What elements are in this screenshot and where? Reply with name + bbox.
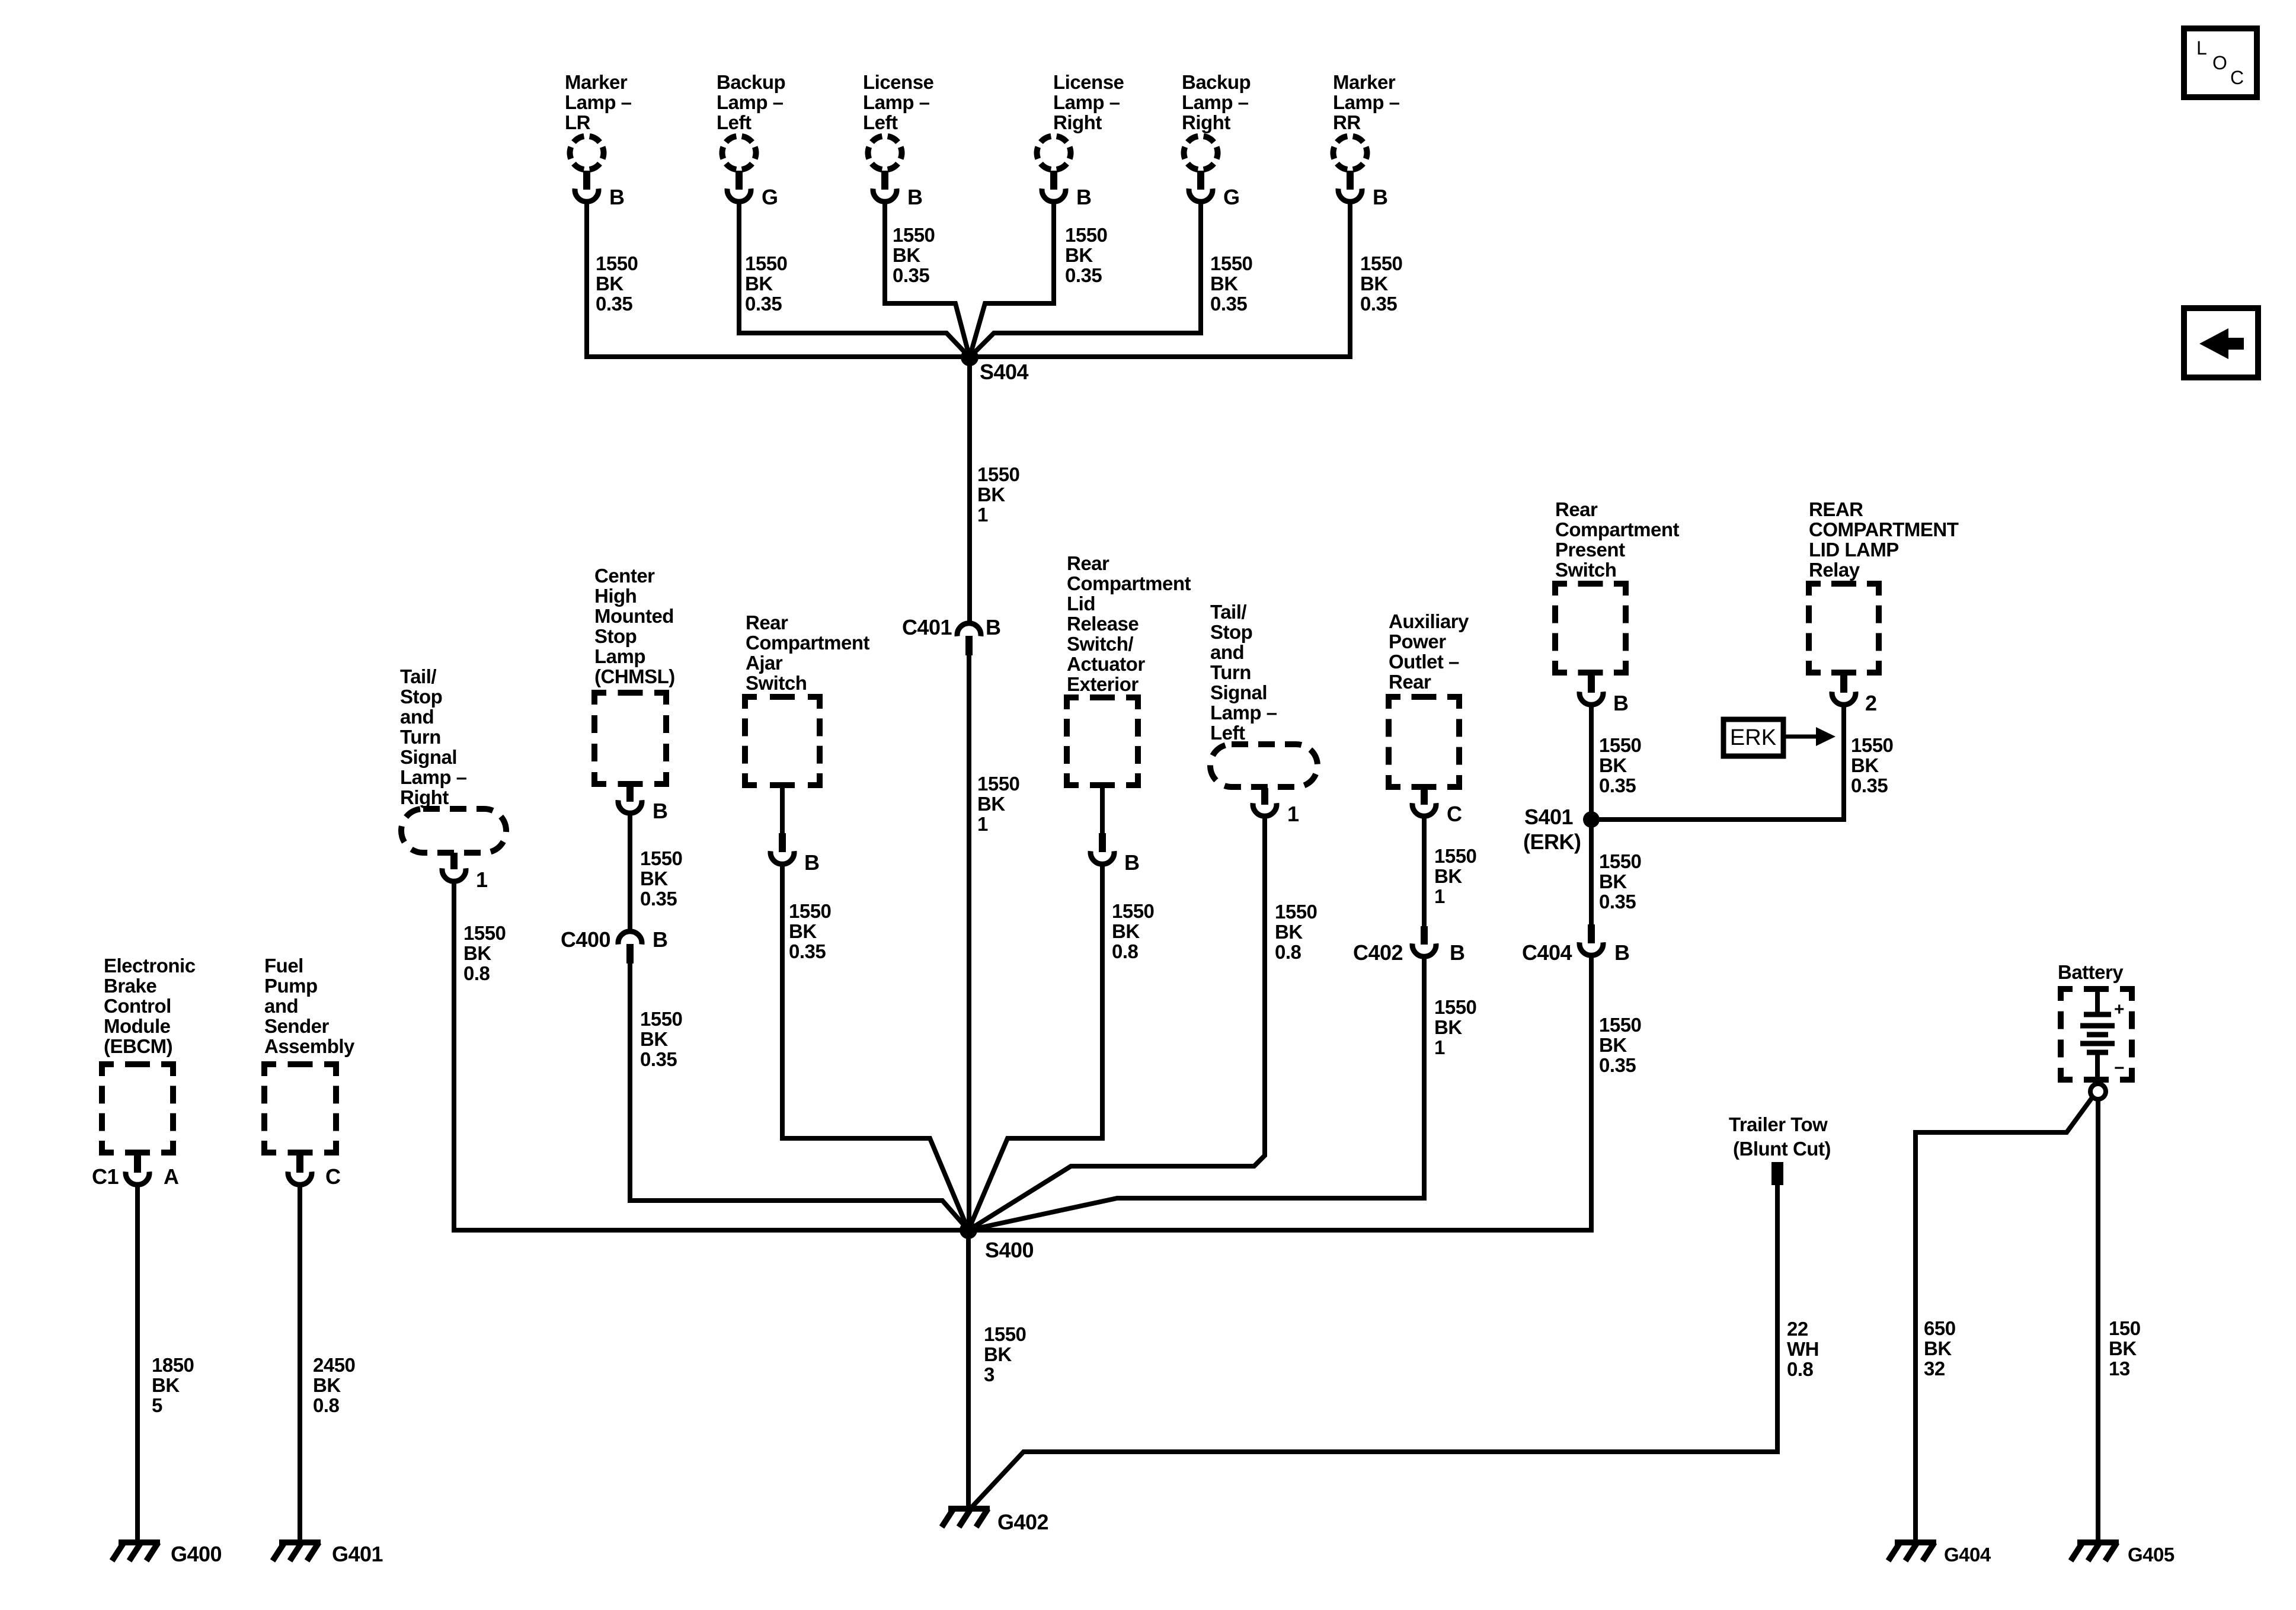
wire S400 to G402 <box>966 1230 971 1509</box>
svg-text:0.35: 0.35 <box>745 293 782 315</box>
svg-text:BK: BK <box>1851 754 1879 776</box>
wire Battery to G404 (650 BK 32) <box>1916 1097 2093 1542</box>
wire label 1550 BK 0.35 (License Lamp - Left) <box>893 224 935 286</box>
svg-text:G404: G404 <box>1944 1544 1991 1566</box>
wire label 1550 BK 1 (Aux-C402) <box>1434 845 1476 907</box>
wire label 1550 BK 0.35 (CHMSL-C400) <box>640 847 682 910</box>
svg-text:BK: BK <box>1434 865 1462 887</box>
svg-text:Lid: Lid <box>1067 593 1095 614</box>
wire label 1550 BK 0.35 (Present-S401) <box>1599 734 1641 796</box>
svg-text:Actuator: Actuator <box>1067 653 1145 675</box>
svg-text:Stop: Stop <box>1210 621 1252 643</box>
ground G404 <box>1888 1542 1991 1566</box>
svg-text:(Blunt Cut): (Blunt Cut) <box>1733 1138 1831 1160</box>
svg-text:0.35: 0.35 <box>1599 891 1636 913</box>
svg-text:Lamp –: Lamp – <box>717 91 784 113</box>
svg-text:C: C <box>1447 802 1462 826</box>
svg-text:0.35: 0.35 <box>1065 264 1102 286</box>
svg-text:1550: 1550 <box>1112 900 1154 922</box>
svg-text:Signal: Signal <box>1210 681 1267 703</box>
wire label 1550 BK 1 (S404-C401) <box>977 463 1019 526</box>
svg-text:Mounted: Mounted <box>594 605 674 627</box>
wire label 1550 BK 0.35 (C400-S400) <box>640 1008 682 1070</box>
svg-text:COMPARTMENT: COMPARTMENT <box>1809 518 1959 540</box>
wire label 1550 BK 0.8 (Lid Release-S400) <box>1112 900 1154 962</box>
svg-text:BK: BK <box>984 1343 1012 1365</box>
svg-text:Power: Power <box>1389 630 1446 652</box>
svg-text:0.35: 0.35 <box>789 940 826 962</box>
svg-text:B: B <box>1450 940 1465 965</box>
svg-text:Present: Present <box>1555 539 1625 561</box>
svg-text:1550: 1550 <box>977 773 1019 795</box>
wire label 1550 BK 0.35 (Backup Lamp - Right) <box>1210 252 1252 315</box>
svg-text:WH: WH <box>1787 1338 1819 1360</box>
lamp Center High Mounted Stop Lamp (CHMSL) <box>594 565 675 823</box>
svg-text:BK: BK <box>313 1374 341 1396</box>
svg-text:LR: LR <box>565 111 591 133</box>
svg-text:License: License <box>1053 71 1124 93</box>
svg-text:BK: BK <box>789 920 817 942</box>
svg-text:LID LAMP: LID LAMP <box>1809 539 1899 561</box>
lamp Backup Lamp - Left <box>717 71 785 209</box>
wire label 1550 BK 0.35 (Marker Lamp - RR) <box>1360 252 1402 315</box>
switch Rear Compartment Lid Release Switch/Actuator Exterior <box>1067 552 1191 875</box>
lamp Tail/Stop and Turn Signal Lamp - Left <box>1210 601 1318 826</box>
svg-text:Brake: Brake <box>104 975 156 997</box>
svg-text:+: + <box>2114 1000 2124 1019</box>
svg-text:Compartment: Compartment <box>1067 572 1191 594</box>
wire EBCM pin A to G400 <box>135 1187 140 1542</box>
svg-text:Stop: Stop <box>400 686 442 708</box>
wire Tail/Stop Right pin 1 to S400 <box>454 884 968 1230</box>
svg-text:Module: Module <box>104 1015 171 1037</box>
wire label 1550 BK 0.35 (Marker Lamp - LR) <box>596 252 638 315</box>
svg-text:0.35: 0.35 <box>640 888 677 910</box>
wire from Backup Lamp - Right to S404 <box>970 204 1201 357</box>
lamp License Lamp - Right <box>1037 71 1124 209</box>
svg-text:Backup: Backup <box>1182 71 1251 93</box>
svg-text:G402: G402 <box>997 1510 1048 1534</box>
svg-text:BK: BK <box>1210 273 1238 295</box>
wire Lid Release pin B to S400 <box>968 866 1102 1230</box>
svg-text:(CHMSL): (CHMSL) <box>594 665 675 687</box>
wire Present Switch pin B to S401 <box>1589 707 1594 820</box>
svg-text:Fuel: Fuel <box>264 955 303 977</box>
svg-text:Release: Release <box>1067 613 1139 635</box>
svg-text:Compartment: Compartment <box>1555 518 1680 540</box>
svg-text:1550: 1550 <box>1210 252 1252 274</box>
svg-text:B: B <box>1124 850 1140 875</box>
ERK reference box with arrow <box>1723 719 1835 756</box>
svg-text:ERK: ERK <box>1730 725 1776 750</box>
battery Battery <box>2058 961 2132 1099</box>
svg-text:Rear: Rear <box>1555 498 1598 520</box>
svg-text:Battery: Battery <box>2058 961 2124 983</box>
svg-text:1550: 1550 <box>1599 850 1641 872</box>
svg-text:0.8: 0.8 <box>463 962 490 984</box>
relay REAR COMPARTMENT LID LAMP Relay <box>1809 498 1959 715</box>
svg-text:1550: 1550 <box>789 900 831 922</box>
svg-text:BK: BK <box>977 793 1005 815</box>
svg-text:BK: BK <box>977 484 1005 505</box>
lamp Backup Lamp - Right <box>1182 71 1251 209</box>
connector C404 pin B <box>1522 924 1630 965</box>
wire label 1550 BK 0.35 (C404-S400) <box>1599 1014 1641 1076</box>
svg-text:1550: 1550 <box>463 922 506 944</box>
svg-text:B: B <box>653 799 668 823</box>
svg-text:G: G <box>762 185 778 209</box>
wire from Backup Lamp - Left to S404 <box>739 204 970 357</box>
svg-text:B: B <box>1076 185 1092 209</box>
wire C400 to S400 <box>630 964 968 1230</box>
svg-text:0.35: 0.35 <box>1210 293 1247 315</box>
svg-text:Lamp –: Lamp – <box>400 766 467 788</box>
svg-text:Marker: Marker <box>1333 71 1396 93</box>
svg-text:S400: S400 <box>985 1238 1034 1262</box>
svg-text:Marker: Marker <box>565 71 628 93</box>
svg-text:B: B <box>1613 691 1629 715</box>
svg-text:Switch: Switch <box>1555 559 1616 581</box>
svg-text:Control: Control <box>104 995 171 1017</box>
svg-text:Backup: Backup <box>717 71 785 93</box>
svg-text:Auxiliary: Auxiliary <box>1389 610 1469 632</box>
svg-text:G: G <box>1223 185 1240 209</box>
wire label 1550 BK 0.35 (Ajar-S400) <box>789 900 831 962</box>
svg-text:1550: 1550 <box>984 1323 1026 1345</box>
svg-text:Switch: Switch <box>746 672 807 694</box>
svg-text:1550: 1550 <box>596 252 638 274</box>
wire stub Lid Release box to pin <box>1100 785 1105 833</box>
svg-text:B: B <box>653 927 668 952</box>
wire Aux Power pin C to C402 <box>1422 818 1427 926</box>
back arrow box <box>2184 308 2258 377</box>
svg-text:and: and <box>400 706 434 728</box>
svg-text:Left: Left <box>1210 722 1245 744</box>
svg-text:Lamp –: Lamp – <box>1210 702 1277 724</box>
svg-text:1: 1 <box>1287 802 1299 826</box>
svg-text:BK: BK <box>1434 1016 1462 1038</box>
svg-text:Exterior: Exterior <box>1067 673 1139 695</box>
svg-text:0.35: 0.35 <box>1599 1054 1636 1076</box>
connector C400 pin B <box>561 927 668 964</box>
wire stub Ajar Switch box to pin <box>780 785 785 833</box>
svg-text:Tail/: Tail/ <box>400 665 436 687</box>
wire label 1550 BK 0.35 (License Lamp - Right) <box>1065 224 1107 286</box>
svg-text:O: O <box>2212 52 2227 73</box>
svg-text:Turn: Turn <box>400 726 441 748</box>
node S404 splice <box>961 348 1029 384</box>
svg-text:G400: G400 <box>171 1542 222 1566</box>
svg-text:L: L <box>2196 37 2207 59</box>
svg-text:BK: BK <box>640 868 668 889</box>
svg-text:G405: G405 <box>2128 1544 2175 1566</box>
svg-text:0.35: 0.35 <box>1851 774 1888 796</box>
wire S404 to C401 <box>967 357 972 622</box>
svg-text:RR: RR <box>1333 111 1361 133</box>
svg-text:B: B <box>907 185 923 209</box>
svg-text:Stop: Stop <box>594 625 637 647</box>
svg-text:BK: BK <box>1599 754 1627 776</box>
svg-text:B: B <box>1373 185 1388 209</box>
svg-text:C: C <box>2230 67 2244 88</box>
svg-text:Turn: Turn <box>1210 661 1251 683</box>
battery negative terminal <box>2090 1084 2106 1099</box>
svg-text:1550: 1550 <box>1275 901 1317 923</box>
svg-text:1550: 1550 <box>1851 734 1893 756</box>
svg-text:0.8: 0.8 <box>313 1394 340 1416</box>
svg-text:BK: BK <box>1360 273 1388 295</box>
svg-text:1: 1 <box>1434 1036 1445 1058</box>
svg-text:Right: Right <box>1053 111 1102 133</box>
svg-text:650: 650 <box>1924 1317 1956 1339</box>
svg-text:Left: Left <box>717 111 752 133</box>
svg-text:B: B <box>1614 940 1630 965</box>
svg-text:0.35: 0.35 <box>596 293 632 315</box>
svg-text:License: License <box>863 71 934 93</box>
svg-text:1550: 1550 <box>1434 996 1476 1018</box>
svg-text:Sender: Sender <box>264 1015 330 1037</box>
svg-text:0.8: 0.8 <box>1787 1358 1814 1380</box>
svg-text:BK: BK <box>1599 870 1627 892</box>
svg-text:−: − <box>2114 1058 2124 1078</box>
svg-text:1550: 1550 <box>1360 252 1402 274</box>
ground G400 <box>112 1542 222 1566</box>
svg-text:Outlet –: Outlet – <box>1389 651 1459 673</box>
wire label 1550 BK 3 <box>984 1323 1026 1385</box>
svg-text:C1: C1 <box>92 1164 119 1189</box>
svg-text:Trailer Tow: Trailer Tow <box>1729 1113 1828 1135</box>
wire Battery to G405 (150 BK 13) <box>2096 1099 2100 1542</box>
lamp Marker Lamp - LR <box>565 71 632 209</box>
wire label 1850 BK 5 <box>152 1354 194 1416</box>
wire from Marker Lamp - RR to S404 <box>970 204 1350 357</box>
wire label 22 WH 0.8 <box>1787 1318 1819 1380</box>
svg-text:BK: BK <box>1065 244 1093 266</box>
svg-text:Lamp –: Lamp – <box>1333 91 1400 113</box>
svg-text:BK: BK <box>1599 1034 1627 1056</box>
wire label 1550 BK 0.35 (Backup Lamp - Left) <box>745 252 787 315</box>
svg-text:3: 3 <box>984 1363 994 1385</box>
svg-text:High: High <box>594 585 637 607</box>
svg-text:0.8: 0.8 <box>1275 941 1302 963</box>
svg-text:C402: C402 <box>1353 940 1403 965</box>
svg-text:BK: BK <box>2109 1337 2137 1359</box>
svg-text:Center: Center <box>594 565 655 587</box>
node S400 splice <box>960 1221 1034 1262</box>
svg-text:REAR: REAR <box>1809 498 1863 520</box>
wire Relay pin 2 to S401 <box>1591 707 1844 820</box>
svg-text:2450: 2450 <box>313 1354 355 1376</box>
LOC legend box <box>2184 28 2257 97</box>
svg-text:Compartment: Compartment <box>746 632 870 654</box>
svg-text:0.35: 0.35 <box>640 1048 677 1070</box>
wire S401 to C404 <box>1589 820 1594 924</box>
svg-text:C400: C400 <box>561 927 610 952</box>
wire C404 to S400 <box>968 958 1591 1230</box>
terminal Trailer Tow (Blunt Cut) <box>1729 1113 1831 1185</box>
wire from License Lamp - Right to S404 <box>970 204 1054 357</box>
svg-text:1: 1 <box>1434 885 1445 907</box>
svg-text:0.35: 0.35 <box>1599 774 1636 796</box>
svg-text:Left: Left <box>863 111 898 133</box>
svg-text:BK: BK <box>463 942 491 964</box>
svg-text:and: and <box>1210 641 1244 663</box>
svg-text:Rear: Rear <box>1067 552 1109 574</box>
wire label 1550 BK 0.35 (Relay-S401) <box>1851 734 1893 796</box>
wire label 650 BK 32 <box>1924 1317 1956 1379</box>
svg-text:0.35: 0.35 <box>893 264 929 286</box>
wire Trailer Tow to G402 <box>972 1185 1777 1507</box>
wire label 2450 BK 0.8 <box>313 1354 355 1416</box>
outlet Auxiliary Power Outlet - Rear <box>1389 610 1469 826</box>
svg-text:22: 22 <box>1787 1318 1808 1340</box>
svg-text:S404: S404 <box>980 360 1029 384</box>
svg-text:Electronic: Electronic <box>104 955 196 977</box>
wire label 1550 BK 0.35 (S401-C404) <box>1599 850 1641 913</box>
svg-text:1550: 1550 <box>745 252 787 274</box>
svg-text:Right: Right <box>1182 111 1230 133</box>
wire Ajar Switch pin B to S400 <box>782 866 968 1230</box>
svg-text:Lamp –: Lamp – <box>1053 91 1120 113</box>
svg-text:B: B <box>804 850 820 875</box>
wire from Marker Lamp - LR to S404 <box>587 204 970 357</box>
wire C401 to S400 <box>967 655 971 1230</box>
svg-text:Pump: Pump <box>264 975 318 997</box>
svg-text:1550: 1550 <box>977 463 1019 485</box>
svg-text:Lamp –: Lamp – <box>1182 91 1249 113</box>
svg-text:BK: BK <box>1924 1337 1952 1359</box>
svg-text:and: and <box>264 995 298 1017</box>
svg-text:0.35: 0.35 <box>1360 293 1397 315</box>
svg-text:Right: Right <box>400 786 449 808</box>
svg-text:BK: BK <box>1275 921 1303 943</box>
svg-text:5: 5 <box>152 1394 162 1416</box>
svg-text:Tail/: Tail/ <box>1210 601 1246 623</box>
svg-text:Assembly: Assembly <box>264 1035 355 1057</box>
wire Tail/Stop Left pin 1 to S400 <box>968 818 1265 1230</box>
wire label 1550 BK 0.8 (Tail Right) <box>463 922 506 984</box>
svg-text:C404: C404 <box>1522 940 1572 965</box>
wire label 1550 BK 1 (C402-S400) <box>1434 996 1476 1058</box>
svg-text:G401: G401 <box>332 1542 383 1566</box>
svg-text:Lamp: Lamp <box>594 645 645 667</box>
ground G405 <box>2071 1542 2175 1566</box>
svg-text:Signal: Signal <box>400 746 457 768</box>
svg-text:BK: BK <box>893 244 920 266</box>
svg-text:1: 1 <box>977 813 988 835</box>
wire C402 to S400 <box>968 959 1424 1230</box>
svg-text:B: B <box>986 615 1001 639</box>
module Fuel Pump and Sender Assembly <box>264 955 355 1189</box>
svg-text:1550: 1550 <box>640 1008 682 1030</box>
lamp License Lamp - Left <box>863 71 934 209</box>
module Electronic Brake Control Module (EBCM) <box>92 955 196 1189</box>
svg-text:BK: BK <box>745 273 773 295</box>
svg-text:(EBCM): (EBCM) <box>104 1035 172 1057</box>
svg-text:S401: S401 <box>1524 805 1574 829</box>
wire label 150 BK 13 <box>2109 1317 2141 1379</box>
wire label 1550 BK 1 (C401-S400) <box>977 773 1019 835</box>
svg-text:1550: 1550 <box>1434 845 1476 867</box>
svg-text:Rear: Rear <box>1389 671 1431 693</box>
svg-text:B: B <box>609 185 625 209</box>
svg-text:1: 1 <box>476 868 488 892</box>
svg-text:BK: BK <box>596 273 623 295</box>
svg-text:Lamp –: Lamp – <box>565 91 632 113</box>
svg-text:1550: 1550 <box>893 224 935 246</box>
connector C401 pin B <box>902 615 1001 655</box>
svg-text:(ERK): (ERK) <box>1523 830 1581 854</box>
node S401 (ERK) splice <box>1523 805 1600 854</box>
wire Fuel Pump pin C to G401 <box>298 1187 302 1542</box>
svg-text:1850: 1850 <box>152 1354 194 1376</box>
svg-text:BK: BK <box>640 1028 668 1050</box>
svg-text:BK: BK <box>1112 920 1140 942</box>
wire from License Lamp - Left to S404 <box>885 204 970 357</box>
wire label 1550 BK 0.8 (Tail Left) <box>1275 901 1317 963</box>
svg-text:2: 2 <box>1865 691 1877 715</box>
svg-text:1550: 1550 <box>640 847 682 869</box>
svg-text:Ajar: Ajar <box>746 652 783 674</box>
svg-text:BK: BK <box>152 1374 180 1396</box>
svg-text:13: 13 <box>2109 1358 2130 1379</box>
svg-text:Relay: Relay <box>1809 559 1860 581</box>
connector C402 pin B <box>1353 926 1465 965</box>
svg-text:A: A <box>164 1164 179 1189</box>
svg-text:Lamp –: Lamp – <box>863 91 930 113</box>
svg-text:Rear: Rear <box>746 612 788 633</box>
lamp Tail/Stop and Turn Signal Lamp - Right <box>400 665 506 892</box>
svg-text:C: C <box>325 1164 341 1189</box>
lamp Marker Lamp - RR <box>1333 71 1400 209</box>
switch Rear Compartment Ajar Switch <box>745 612 870 875</box>
svg-text:Switch/: Switch/ <box>1067 633 1133 655</box>
svg-text:32: 32 <box>1924 1358 1945 1379</box>
svg-text:0.8: 0.8 <box>1112 940 1139 962</box>
ground G402 <box>942 1509 1048 1534</box>
switch Rear Compartment Present Switch <box>1555 498 1680 715</box>
svg-text:150: 150 <box>2109 1317 2141 1339</box>
svg-text:1: 1 <box>977 504 988 526</box>
svg-text:1550: 1550 <box>1065 224 1107 246</box>
svg-text:1550: 1550 <box>1599 734 1641 756</box>
wire CHMSL pin B to C400 <box>628 815 632 930</box>
ground G401 <box>273 1542 383 1566</box>
svg-text:1550: 1550 <box>1599 1014 1641 1036</box>
svg-text:C401: C401 <box>902 615 952 639</box>
